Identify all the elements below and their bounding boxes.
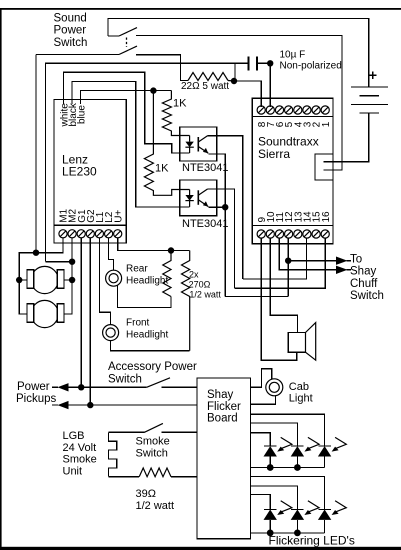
label white wire bbox=[60, 103, 71, 128]
svg-text:1K: 1K bbox=[173, 98, 187, 110]
switch S2 accessory blade bbox=[147, 378, 170, 388]
svg-text:22Ω 5 watt: 22Ω 5 watt bbox=[181, 81, 229, 92]
optocoupler U2 phototransistor bbox=[198, 136, 208, 154]
smoke unit heater element bbox=[109, 432, 117, 476]
LED D6 bbox=[318, 501, 346, 520]
wire pickup2 to board bbox=[68, 404, 197, 406]
sound unit U4 top terminals bbox=[257, 106, 329, 114]
arrow chuff 2 bbox=[336, 266, 351, 274]
wire U3 collector bbox=[208, 189, 235, 288]
wire terminal 12 down bbox=[287, 238, 289, 296]
decoder U1 top wire stubs bbox=[64, 100, 81, 104]
wire M2 loop to capacitor bbox=[45, 63, 248, 261]
svg-text:Front: Front bbox=[126, 318, 150, 329]
label cab light bbox=[289, 381, 313, 405]
LED D4 bbox=[264, 501, 292, 520]
switch S1 pole1 blade bbox=[119, 28, 137, 36]
svg-text:1/2 watt: 1/2 watt bbox=[189, 290, 221, 300]
node group2 bus junction a bbox=[267, 530, 274, 537]
decoder U1 Lenz LE230 box bbox=[54, 100, 126, 243]
wire pole1 to sierra plug bbox=[136, 35, 342, 170]
svg-text:16: 16 bbox=[321, 211, 332, 223]
svg-text:LGB: LGB bbox=[63, 430, 85, 442]
optocoupler U3 LED bbox=[185, 190, 193, 207]
svg-text:Switch: Switch bbox=[108, 373, 142, 385]
wire cap left vertical bbox=[234, 63, 236, 81]
label accessory power switch bbox=[108, 361, 197, 385]
flicker board U5 box bbox=[197, 378, 251, 539]
svg-text:Power: Power bbox=[17, 381, 50, 393]
label shay flicker board bbox=[207, 389, 241, 425]
wire G1 down bbox=[80, 238, 82, 387]
wire 39ohm to board bbox=[171, 476, 197, 478]
svg-text:blue: blue bbox=[77, 105, 88, 124]
wire terminal 9 to speaker bbox=[261, 238, 297, 360]
wire black loop bbox=[72, 81, 190, 206]
optocoupler U3 phototransistor bbox=[198, 189, 208, 207]
resistor R5 39ohm bbox=[139, 468, 171, 477]
wire LED group2 bus bbox=[251, 532, 325, 534]
battery B1 bbox=[351, 87, 388, 113]
resistor R2 270ohm bbox=[182, 251, 190, 351]
resistor R1 270ohm bbox=[163, 251, 171, 297]
wire smoke top to switch bbox=[109, 431, 145, 433]
lamp cab light bbox=[266, 379, 283, 396]
wire smoke switch to board bbox=[162, 431, 198, 433]
wire emitters down bbox=[224, 207, 226, 296]
wire M1 terminal to left bus bbox=[19, 238, 63, 314]
svg-text:1/2 watt: 1/2 watt bbox=[136, 500, 175, 512]
label battery plus bbox=[369, 71, 377, 79]
label U2 NTE3041 bbox=[182, 162, 228, 174]
svg-text:Chuff: Chuff bbox=[350, 278, 378, 290]
svg-text:1K: 1K bbox=[155, 163, 169, 175]
svg-text:Power: Power bbox=[54, 25, 87, 37]
svg-text:Flicker: Flicker bbox=[207, 401, 241, 413]
wire board to LED D1 bbox=[251, 433, 271, 446]
LED D1 bbox=[264, 437, 292, 456]
node U+ resistor junction bbox=[168, 247, 174, 253]
sound unit U4 battery plug bbox=[315, 154, 333, 180]
label black wire bbox=[68, 102, 79, 126]
node G1 junction bbox=[78, 384, 84, 390]
wire 22ohm to node bbox=[228, 80, 234, 83]
svg-text:To: To bbox=[350, 253, 362, 265]
wire smoke bottom to 39ohm bbox=[109, 476, 140, 478]
label rear headlight bbox=[126, 263, 168, 286]
wire motor1 right stub bbox=[64, 279, 72, 281]
switch S3 smoke blade bbox=[144, 423, 163, 432]
wire board to LED D5 bbox=[251, 486, 298, 510]
wire U+ to resistors bbox=[118, 238, 190, 250]
optocoupler U2 LED bbox=[185, 136, 193, 154]
sound unit U4 bottom terminals bbox=[257, 230, 329, 238]
label LGB smoke unit bbox=[63, 430, 97, 478]
svg-text:2x: 2x bbox=[189, 269, 199, 279]
capacitor C1 plates bbox=[249, 57, 258, 71]
node motor1 left junction bbox=[16, 277, 22, 283]
border frame left bbox=[0, 8, 2, 549]
wire blue loop bbox=[81, 91, 172, 100]
wire U3 emitter bbox=[208, 206, 225, 208]
label to shay chuff switch bbox=[350, 253, 384, 302]
svg-text:Sierra: Sierra bbox=[258, 147, 290, 161]
svg-text:NTE3041: NTE3041 bbox=[182, 218, 228, 230]
optocoupler U3 box bbox=[180, 180, 217, 216]
svg-text:Switch: Switch bbox=[54, 37, 88, 49]
svg-text:Cab: Cab bbox=[289, 381, 309, 393]
label power pickups bbox=[16, 381, 57, 405]
label smoke switch bbox=[136, 436, 170, 460]
LED D2 bbox=[291, 437, 319, 456]
switch S1 pole2 left wire bbox=[36, 54, 119, 56]
node group1 bus junction b bbox=[294, 464, 301, 471]
wire cap to terminal 7 bbox=[257, 63, 270, 107]
label front headlight bbox=[126, 318, 168, 341]
node emitter junction bbox=[222, 204, 228, 210]
wire terminal 16 to collector U2 bbox=[235, 238, 326, 288]
wire board to LED D4 bbox=[251, 495, 271, 510]
LED D3 bbox=[318, 437, 346, 456]
label 22ohm value bbox=[181, 81, 229, 92]
svg-text:Rear: Rear bbox=[126, 263, 148, 274]
wire U2 collector bbox=[208, 136, 243, 279]
svg-text:LE230: LE230 bbox=[62, 165, 97, 179]
sound unit U4 Soundtraxx Sierra box bbox=[252, 98, 333, 244]
switch S1 pole1 left stub bbox=[108, 35, 119, 37]
resistor 22ohm 5 watt bbox=[188, 73, 228, 81]
node resistor-terminal8 junction bbox=[231, 78, 237, 84]
wire node to terminal 8 bbox=[234, 81, 261, 107]
wire L2 to rear headlight bbox=[109, 238, 114, 270]
label blue wire bbox=[77, 105, 88, 124]
wire cab light top bbox=[251, 369, 272, 388]
svg-text:Pickups: Pickups bbox=[16, 393, 57, 405]
svg-text:Light: Light bbox=[289, 393, 313, 405]
node group1 bus junction a bbox=[267, 464, 274, 471]
LED D5 bbox=[291, 501, 319, 520]
node M1 tap junction bbox=[33, 250, 39, 256]
svg-text:Smoke: Smoke bbox=[63, 454, 97, 466]
node blue junction bbox=[150, 87, 156, 93]
node cap-terminal7 junction bbox=[267, 60, 273, 66]
decoder U1 pin labels bbox=[59, 208, 125, 222]
svg-text:Headlight: Headlight bbox=[126, 275, 168, 286]
svg-text:Smoke: Smoke bbox=[136, 436, 170, 448]
svg-text:Switch: Switch bbox=[136, 448, 168, 460]
svg-text:Unit: Unit bbox=[63, 466, 83, 478]
sound unit U4 bottom pin numbers bbox=[257, 211, 332, 223]
sound unit U4 top pin numbers bbox=[257, 121, 332, 127]
svg-text:Sound: Sound bbox=[54, 12, 87, 24]
border frame top bbox=[0, 8, 401, 10]
resistor R4 1K bbox=[144, 91, 189, 196]
switch S1 pole2 blade bbox=[119, 46, 137, 54]
wire G2 down bbox=[89, 238, 91, 405]
svg-text:NTE3041: NTE3041 bbox=[182, 162, 228, 174]
svg-text:U+: U+ bbox=[113, 210, 124, 223]
decoder U1 bottom terminals bbox=[59, 230, 122, 238]
svg-text:Non-polarized: Non-polarized bbox=[280, 61, 342, 72]
wire terminal 14 to collector U3 bbox=[243, 238, 307, 279]
label sound power switch bbox=[54, 12, 88, 49]
wire front headlight return bbox=[111, 341, 190, 351]
svg-text:39Ω: 39Ω bbox=[136, 488, 156, 500]
border frame bottom bbox=[0, 547, 401, 550]
wire loopA tap to M2 bbox=[45, 261, 72, 263]
wire cab light bottom bbox=[251, 396, 276, 405]
resistor R3 1K bbox=[162, 91, 189, 136]
wire board to LED D3 bbox=[251, 414, 325, 446]
label Lenz LE230 bbox=[62, 152, 97, 178]
wire pole2 to 22ohm bbox=[136, 55, 188, 81]
wire board to LED D2 bbox=[251, 423, 298, 446]
label 270ohm value bbox=[189, 269, 222, 299]
svg-text:Board: Board bbox=[207, 413, 238, 425]
node M2 tap junction bbox=[69, 259, 75, 265]
label U3 NTE3041 bbox=[182, 218, 228, 230]
node motor1 right junction bbox=[69, 277, 75, 283]
label R3 1K value bbox=[173, 98, 187, 110]
wire board to LED D6 bbox=[251, 477, 325, 510]
svg-text:270Ω: 270Ω bbox=[189, 279, 211, 289]
node group2 bus junction b bbox=[294, 530, 301, 537]
svg-text:Headlight: Headlight bbox=[126, 329, 168, 340]
svg-text:Flickering LED's: Flickering LED's bbox=[269, 533, 355, 547]
lamp front headlight bbox=[103, 325, 119, 341]
arrow pickup 2 bbox=[52, 401, 69, 409]
wire pole2 tap to M1 bbox=[35, 55, 37, 253]
label flickering LEDs bbox=[269, 533, 355, 547]
wire accessory switch to board bbox=[161, 386, 197, 388]
wire LED group1 bus bbox=[251, 467, 325, 469]
motor M1 bbox=[27, 266, 64, 293]
wire M2 terminal to right bus bbox=[64, 238, 72, 314]
optocoupler U2 box bbox=[180, 127, 217, 161]
svg-text:Switch: Switch bbox=[350, 290, 384, 302]
label Soundtraxx Sierra bbox=[258, 135, 319, 161]
wire terminal 11 to chuff arrow bbox=[279, 238, 336, 270]
node terminal12 junction bbox=[285, 258, 291, 264]
motor M2 bbox=[27, 300, 64, 327]
wire terminal 12 to emitters bbox=[225, 296, 288, 298]
lamp rear headlight bbox=[106, 270, 122, 286]
decoder U1 terminal strip line bbox=[54, 224, 126, 226]
switch S1 link dashed bbox=[126, 38, 128, 48]
svg-text:24 Volt: 24 Volt bbox=[63, 442, 97, 454]
label capacitor value bbox=[280, 50, 342, 72]
sound unit U4 strip lines bbox=[252, 117, 333, 226]
svg-text:Accessory Power: Accessory Power bbox=[108, 361, 197, 373]
arrow pickup 1 bbox=[52, 383, 69, 391]
wire chuff arrow 1 bbox=[288, 260, 336, 262]
wire LED group1 leads bbox=[270, 457, 324, 468]
wire white loop bbox=[64, 72, 190, 153]
wire motor1 left stub bbox=[19, 279, 27, 281]
wire LED group2 leads bbox=[270, 520, 324, 533]
wire L1 to front headlight bbox=[99, 238, 110, 325]
label R4 1K value bbox=[155, 163, 169, 175]
wire battery minus to sierra plug bbox=[324, 113, 369, 162]
svg-text:Shay: Shay bbox=[207, 389, 233, 401]
svg-text:10µ F: 10µ F bbox=[280, 50, 306, 61]
wire battery top feed bbox=[108, 19, 369, 88]
wire rear headlight return bbox=[118, 286, 172, 308]
label 39ohm value bbox=[136, 488, 175, 512]
arrow chuff 1 bbox=[336, 257, 351, 265]
svg-text:1: 1 bbox=[321, 121, 332, 127]
wire pickup1 to accessory switch bbox=[68, 386, 147, 388]
wire U2 emitter bbox=[208, 154, 225, 207]
wire terminal 10 to speaker bbox=[270, 238, 297, 332]
svg-text:Shay: Shay bbox=[350, 266, 376, 278]
speaker SP1 bbox=[288, 323, 315, 361]
node G2 junction bbox=[87, 402, 93, 408]
